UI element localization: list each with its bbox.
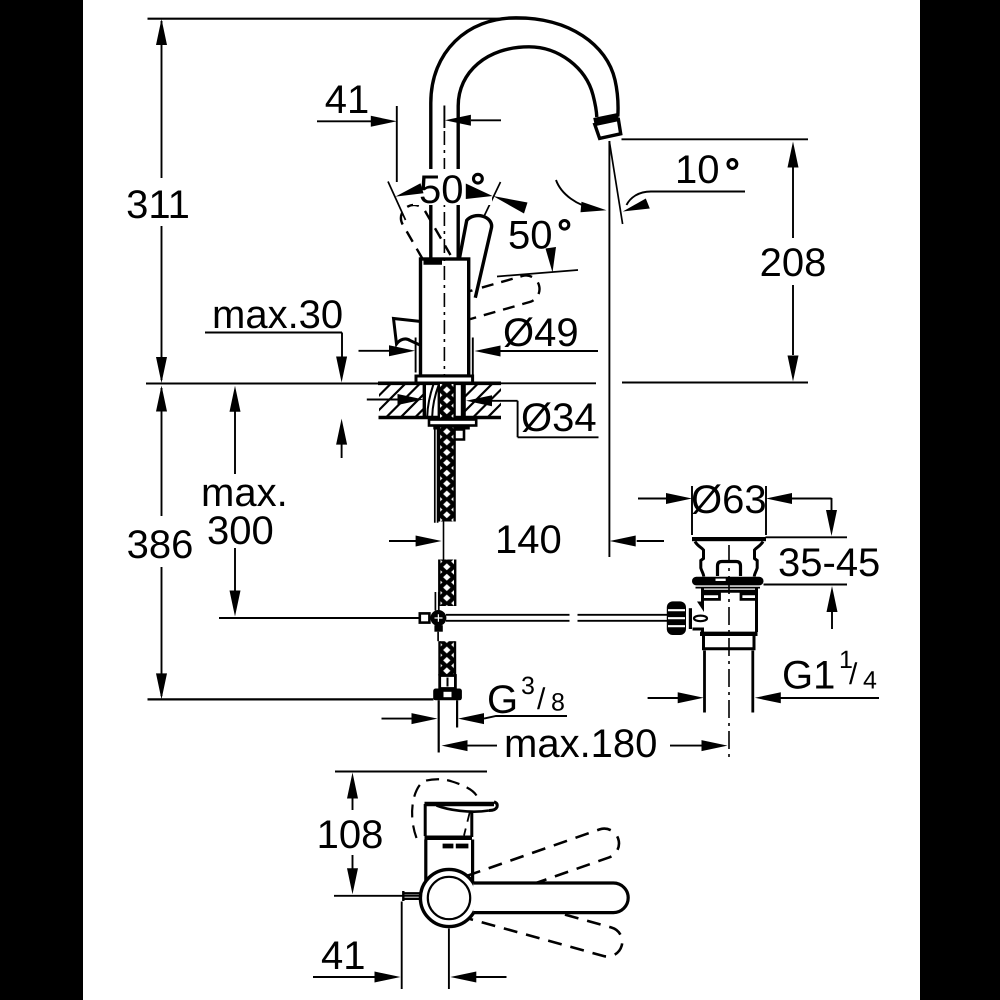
pop-up rod upper [435,426,438,523]
shank hole left edge [423,384,426,417]
label 10 deg [556,148,745,212]
10 degree tilted line [609,141,622,224]
handle lever solid [460,216,492,298]
dimension 41 bottom [313,902,507,990]
rod stub below ball [437,632,439,642]
svg-text:35-45: 35-45 [778,541,880,585]
dimension 35-45 [764,498,881,629]
dimension max.180 [442,722,728,766]
plan spout bar [473,883,628,913]
dimension 140 [389,518,664,562]
dimension dia34 [367,394,599,440]
linkage horizontal rod [446,615,668,621]
drain locknut [692,577,764,588]
drain lower body [703,589,757,633]
svg-text:50: 50 [508,214,553,258]
spout aerator tip [595,120,621,139]
bottom reference line [148,698,434,700]
hose ferrule [440,676,456,689]
svg-text:Ø49: Ø49 [503,311,579,355]
drain bottom collar [700,634,758,649]
left black bar [0,0,83,1000]
plan dashed spout lower [468,890,625,960]
sink deck bottom line [379,416,502,420]
plan cartridge body [426,840,473,885]
braided hose in deck hole [439,384,455,418]
dimension dia63 [638,478,832,535]
handle lever dashed right position [463,275,540,319]
svg-text:311: 311 [126,183,190,227]
linkage thumbscrew [667,601,707,635]
svg-text:Ø63: Ø63 [691,478,767,522]
dimension 208 [760,142,827,382]
plan dashed lever position [412,779,476,838]
dimension 41 top [317,78,501,182]
drain centerline [728,545,730,760]
50 deg leader tick [476,182,501,233]
svg-text:41: 41 [325,78,370,122]
linkage ball joint [430,610,446,632]
spout tip reference line [622,138,809,140]
label 50 deg upper [388,168,528,220]
svg-text:386: 386 [127,523,194,567]
svg-text:10: 10 [675,148,720,192]
svg-text:3: 3 [521,672,535,700]
svg-text:/: / [537,683,546,716]
body base flange [416,376,473,383]
svg-text:max.30: max.30 [212,293,343,337]
dimension 386 [127,386,194,700]
svg-text:300: 300 [207,509,274,553]
svg-text:108: 108 [317,813,384,857]
cartridge body [421,259,469,376]
braided hose section 3 [440,641,456,675]
hose centerline gap [443,522,445,561]
braided hose section 2 [439,560,455,607]
dimension 108 [317,773,384,895]
svg-text:140: 140 [495,518,562,562]
drain overflow slot [718,562,741,577]
svg-text:4: 4 [863,667,877,695]
svg-text:/: / [849,658,858,691]
water stream reference line [608,141,610,557]
drain tailpipe [705,651,753,713]
right black bar [920,0,1000,1000]
dimension max.30 [205,293,347,458]
top reference line [148,18,531,20]
plan pull rod [403,891,421,901]
svg-text:50: 50 [419,168,464,212]
svg-text:max.180: max.180 [504,722,657,766]
handle lever dashed left position [401,205,451,259]
pop-up rod above ball [435,592,438,611]
svg-text:41: 41 [321,934,366,978]
drain flange [692,537,766,541]
svg-text:G: G [487,678,518,722]
plan dashed spout upper [467,825,623,904]
dimension 311 [126,19,190,383]
svg-text:G1: G1 [782,654,835,698]
flexible hose curves [427,384,439,417]
svg-text:Ø34: Ø34 [521,396,597,440]
dimension max.300 [201,386,420,618]
spout seam band [594,116,618,121]
plan spout base circle [420,869,477,926]
deck hatching [340,381,553,420]
label 50 deg lower [497,214,578,277]
pull rod knob [394,319,422,346]
shank hole right edge [461,384,466,417]
plan view top reference line [335,771,487,773]
label G1 1/4 [648,646,879,703]
spout gooseneck outer curve [431,18,618,259]
plan view faucet center reference line [334,895,425,897]
drain taper neck [695,542,763,577]
spout gooseneck inner curve [458,47,597,259]
svg-text:208: 208 [760,241,827,285]
braided hose section 1 [439,428,455,522]
mounting washer [429,420,476,426]
svg-text:8: 8 [551,689,565,717]
label G 3/8 [382,672,568,724]
sink deck top line [146,383,808,384]
G3/8 pipe [439,700,457,752]
faucet centerline [443,131,445,380]
plan lever head [425,802,498,838]
mounting nut [433,427,470,439]
dimension dia49 [359,311,599,376]
linkage clamp left [420,613,430,622]
G3/8 nut [433,689,462,701]
